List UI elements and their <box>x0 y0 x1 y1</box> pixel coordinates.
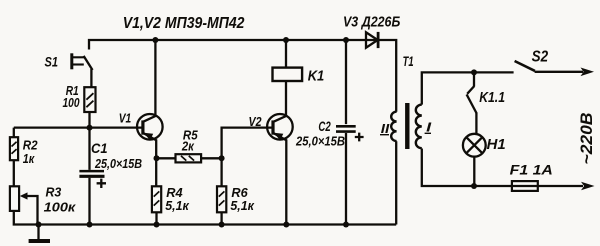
wire C1 column <box>88 128 90 225</box>
relay coil K1 <box>273 68 303 81</box>
transistor V1 body <box>137 114 163 140</box>
wire R4 bottom <box>155 212 157 224</box>
svg-text:5,1к: 5,1к <box>165 198 190 213</box>
svg-text:2к: 2к <box>181 138 195 153</box>
wire V2 base link <box>222 128 272 159</box>
svg-text:1к: 1к <box>23 151 36 166</box>
wire K1 top <box>285 40 287 68</box>
resistor R6 <box>217 186 226 212</box>
ground stub <box>37 225 39 240</box>
transistor V1 base bar <box>141 120 144 134</box>
wire S2 to right arrow <box>535 71 583 73</box>
label winding I underline <box>425 132 431 134</box>
svg-text:I: I <box>426 120 432 134</box>
svg-text:100к: 100к <box>44 199 77 214</box>
wire lamp bottom <box>473 157 475 186</box>
wire R5 row <box>157 157 222 159</box>
svg-text:25,0×15В: 25,0×15В <box>94 157 142 171</box>
wire V1 emitter <box>144 133 157 186</box>
transistor V2 base bar <box>271 120 274 134</box>
wire T1 primary bottom lead <box>395 141 397 224</box>
svg-text:T1: T1 <box>403 54 414 69</box>
wire top rail <box>89 40 396 112</box>
svg-text:K1: K1 <box>308 68 325 85</box>
svg-text:25,0×15В: 25,0×15В <box>295 134 345 148</box>
svg-text:~220В: ~220В <box>577 113 596 165</box>
wire V2 emitter <box>274 133 287 224</box>
wire R6 body column <box>220 158 222 224</box>
relay contact K1.1 <box>467 86 477 134</box>
junction node secondary bottom <box>471 183 477 189</box>
switch S2 lever <box>515 61 535 71</box>
svg-text:F1 1А: F1 1А <box>510 161 553 177</box>
capacitor C1 plus <box>97 179 106 188</box>
arrow bottom right <box>581 182 595 191</box>
svg-text:S1: S1 <box>45 54 59 70</box>
transistor V2 body <box>267 114 293 140</box>
junction node V2 emitter rail <box>283 222 289 228</box>
resistor R5 <box>176 154 202 162</box>
diode V3 <box>366 32 378 48</box>
svg-text:C2: C2 <box>318 119 331 134</box>
resistor R4 <box>152 186 161 212</box>
junction node secondary top <box>471 69 477 75</box>
switch S1 <box>72 53 93 87</box>
arrow top right <box>581 68 595 77</box>
ground bar <box>29 239 50 243</box>
junction node C2 rail <box>343 222 349 228</box>
transformer T1 core <box>405 103 409 149</box>
junction node R6 rail <box>219 222 225 228</box>
capacitor C2 plates <box>336 126 356 131</box>
wire R3 wiper <box>25 196 38 225</box>
svg-text:C1: C1 <box>91 141 108 156</box>
resistor R1 <box>84 87 95 112</box>
wire secondary bottom lead <box>422 149 583 187</box>
svg-text:V2: V2 <box>249 114 263 129</box>
transistor V2 emitter arrow <box>274 133 284 141</box>
potentiometer R3 <box>10 186 19 211</box>
svg-text:S2: S2 <box>532 49 549 66</box>
junction node V1 emitter R5 <box>154 155 160 161</box>
lamp H1 cross <box>466 137 482 153</box>
resistor R2 <box>10 137 18 160</box>
junction node rail-K1 <box>283 37 289 43</box>
wire left bus and bottom rail <box>14 128 396 225</box>
wire V1 base line <box>14 126 142 128</box>
lamp H1 body <box>463 134 486 157</box>
junction node R4 rail <box>154 222 160 228</box>
svg-text:II: II <box>381 122 390 136</box>
capacitor C1 plates <box>79 170 104 173</box>
wire C2 column <box>345 40 347 225</box>
svg-text:K1.1: K1.1 <box>479 90 505 106</box>
junction node rail-V1 <box>152 37 158 43</box>
wire K1.1 branch top <box>473 72 475 86</box>
svg-text:H1: H1 <box>487 137 506 153</box>
transformer T1 primary winding <box>391 112 396 141</box>
transistor V1 emitter arrow <box>144 133 154 141</box>
capacitor C2 plus <box>355 133 364 142</box>
svg-text:5,1к: 5,1к <box>230 198 255 213</box>
svg-text:100: 100 <box>63 95 81 110</box>
fuse F1 <box>512 181 538 191</box>
wire secondary top lead <box>422 72 514 104</box>
svg-text:V1: V1 <box>119 110 132 125</box>
svg-text:V1,V2 МП39-МП42: V1,V2 МП39-МП42 <box>123 15 245 32</box>
svg-text:R3: R3 <box>46 184 63 199</box>
junction node R5 R6 <box>219 155 225 161</box>
wire R1 bottom to base node <box>88 112 90 128</box>
junction node ground rail <box>36 222 42 228</box>
svg-text:V3 Д226Б: V3 Д226Б <box>343 13 401 30</box>
transformer T1 secondary winding <box>416 105 422 149</box>
wire V2 collector <box>274 81 286 121</box>
junction node rail-C2 <box>343 37 349 43</box>
junction node C1 rail <box>87 222 93 228</box>
potentiometer R3 wiper arrowhead <box>20 192 28 199</box>
junction node base-R1-C1 <box>87 125 93 131</box>
wire V1 collector <box>144 40 156 121</box>
label winding II underline <box>380 134 389 136</box>
